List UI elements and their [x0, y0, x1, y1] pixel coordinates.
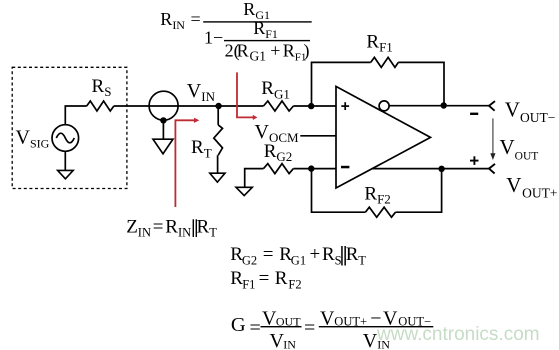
svg-text:R: R: [322, 244, 335, 265]
polarity plus at VOUT+: [470, 156, 479, 165]
svg-text:VOUT−: VOUT−: [505, 98, 556, 126]
resistor RS: [87, 101, 114, 111]
formula RF1=RF2: [230, 268, 301, 291]
resistor RG1: [264, 101, 294, 111]
wire ground to RG2: [245, 169, 264, 188]
svg-text:V: V: [270, 330, 285, 350]
svg-text:RF2: RF2: [364, 183, 390, 206]
node plus input: [308, 103, 314, 109]
source VSIG: [52, 125, 79, 152]
svg-text:VOCM: VOCM: [255, 121, 300, 145]
svg-text:F2: F2: [288, 277, 301, 291]
op-amp U1 plus input marker: [341, 102, 349, 110]
svg-text:ZIN: ZIN: [126, 217, 151, 240]
node output bottom: [438, 166, 444, 172]
svg-text:R: R: [237, 41, 249, 61]
wire RF1 right leg: [398, 62, 444, 105]
resistor RG2: [264, 164, 294, 174]
svg-text:VOUT: VOUT: [500, 135, 539, 163]
svg-text:VSIG: VSIG: [16, 127, 50, 151]
svg-text:G: G: [231, 314, 246, 336]
wire probe to ground: [162, 120, 164, 139]
wire RS to VIN node and RG1: [114, 105, 264, 107]
svg-text:=: =: [263, 244, 274, 265]
wire output bottom (VOUT+): [372, 168, 489, 170]
ground for RT: [210, 173, 225, 182]
svg-text:RT: RT: [191, 137, 212, 161]
op-amp U1 body: [336, 86, 431, 188]
formula RG2: [230, 244, 366, 267]
wire RT to ground: [217, 155, 219, 173]
wire RG2 to opamp minus input: [293, 168, 336, 170]
svg-text:VIN: VIN: [187, 80, 216, 104]
svg-text:G2: G2: [242, 253, 257, 267]
resistor RF1: [371, 57, 399, 67]
svg-text:IN: IN: [283, 337, 296, 350]
probe circle (source port): [149, 91, 178, 120]
svg-text:R: R: [275, 268, 288, 289]
svg-text:RF1: RF1: [366, 31, 392, 54]
red pointer from RIN formula: [237, 72, 257, 120]
svg-text:+: +: [270, 41, 280, 61]
svg-text:RT: RT: [197, 217, 218, 240]
svg-text:RS: RS: [92, 76, 112, 99]
svg-text:): ): [304, 41, 310, 62]
op-amp U1 minus input marker: [341, 166, 349, 169]
terminal chevron VOUT-: [489, 101, 495, 111]
svg-text:R: R: [283, 41, 295, 61]
node VIN: [215, 103, 221, 109]
wire VIN to RT: [217, 106, 219, 125]
wire RF2 right leg: [396, 169, 442, 213]
wire VSIG bottom to ground: [64, 151, 66, 170]
polarity minus at VOUT-: [470, 113, 478, 115]
ground for probe: [153, 139, 173, 154]
svg-text:V: V: [363, 330, 378, 350]
junction at probe bottom: [160, 117, 166, 123]
svg-text:VOUT+: VOUT+: [506, 173, 557, 201]
formula gain G: [231, 307, 433, 350]
dashed source box: [12, 67, 127, 188]
svg-text:RG1: RG1: [261, 78, 290, 102]
svg-text:G1: G1: [291, 253, 306, 267]
ground for VSIG: [58, 170, 74, 178]
wire RF2 feedback left leg: [312, 169, 366, 213]
wire output top (VOUT-): [389, 105, 490, 107]
wire VSIG top to RS: [65, 106, 86, 125]
op-amp inverted output bubble: [379, 101, 389, 111]
node minus input: [308, 165, 314, 171]
svg-text:1−: 1−: [204, 28, 223, 48]
svg-text:=: =: [191, 9, 201, 29]
resistor RF2: [365, 207, 395, 217]
arrow VOUT differential: [490, 118, 495, 160]
svg-text:RIN: RIN: [160, 9, 185, 32]
svg-text:T: T: [358, 253, 366, 267]
resistor RT: [214, 125, 223, 155]
wire RF1 feedback left leg: [312, 62, 371, 106]
formula ZIN: [126, 217, 217, 240]
ground for RG2: [236, 187, 252, 195]
svg-text:R: R: [346, 244, 359, 265]
terminal chevron VOUT+: [489, 164, 495, 174]
red pointer to ZIN node: [175, 118, 199, 207]
formula RIN (top): [160, 0, 311, 64]
svg-text:=: =: [153, 217, 164, 238]
svg-text:+: +: [310, 244, 321, 265]
svg-text:=: =: [250, 317, 261, 339]
svg-text:=: =: [259, 268, 270, 289]
node output top: [441, 102, 447, 108]
svg-text:IN: IN: [377, 337, 390, 350]
svg-text:=: =: [304, 317, 315, 339]
wire RG1 to opamp plus input: [293, 105, 336, 107]
svg-text:F1: F1: [242, 277, 255, 291]
svg-text:RIN: RIN: [165, 217, 191, 240]
wire VOCM input: [300, 135, 336, 137]
svg-text:S: S: [335, 253, 342, 267]
svg-text:G1: G1: [250, 49, 267, 64]
